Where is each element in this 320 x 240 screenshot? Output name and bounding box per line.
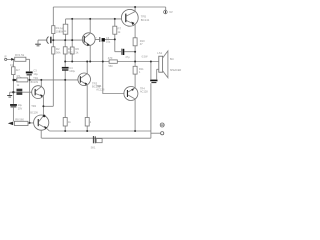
svg-text:SPEAKER: SPEAKER bbox=[170, 69, 182, 72]
svg-text:56k: 56k bbox=[56, 50, 61, 54]
svg-text:9V: 9V bbox=[169, 10, 173, 14]
svg-text:BC141: BC141 bbox=[141, 18, 150, 22]
svg-text:TR2: TR2 bbox=[31, 104, 36, 108]
svg-text:10µ: 10µ bbox=[18, 104, 23, 107]
svg-text:10µ: 10µ bbox=[33, 72, 38, 76]
svg-text:100µ: 100µ bbox=[69, 69, 75, 73]
svg-text:10µ: 10µ bbox=[106, 39, 111, 43]
svg-text:8Ω: 8Ω bbox=[170, 57, 174, 61]
svg-text:560: 560 bbox=[109, 65, 114, 68]
svg-text:BC109: BC109 bbox=[30, 112, 38, 115]
svg-text:47: 47 bbox=[140, 42, 143, 46]
svg-text:25V: 25V bbox=[18, 107, 23, 110]
svg-text:0.5W: 0.5W bbox=[142, 56, 148, 59]
svg-text:TR1: TR1 bbox=[33, 77, 38, 80]
svg-text:8k2: 8k2 bbox=[68, 50, 73, 54]
svg-text:47µ: 47µ bbox=[125, 56, 130, 59]
svg-text:AC128: AC128 bbox=[140, 91, 148, 94]
svg-text:4k7: 4k7 bbox=[16, 69, 21, 72]
svg-text:470: 470 bbox=[108, 56, 113, 60]
svg-text:R8 560: R8 560 bbox=[15, 117, 24, 121]
svg-text:RV1 5k: RV1 5k bbox=[15, 53, 25, 57]
svg-text:SK1: SK1 bbox=[91, 146, 96, 150]
svg-text:BC109: BC109 bbox=[31, 81, 39, 84]
svg-text:LS1: LS1 bbox=[157, 51, 162, 55]
svg-text:R3: R3 bbox=[17, 74, 21, 78]
svg-text:IP: IP bbox=[4, 55, 7, 58]
svg-text:AC128: AC128 bbox=[96, 87, 105, 91]
